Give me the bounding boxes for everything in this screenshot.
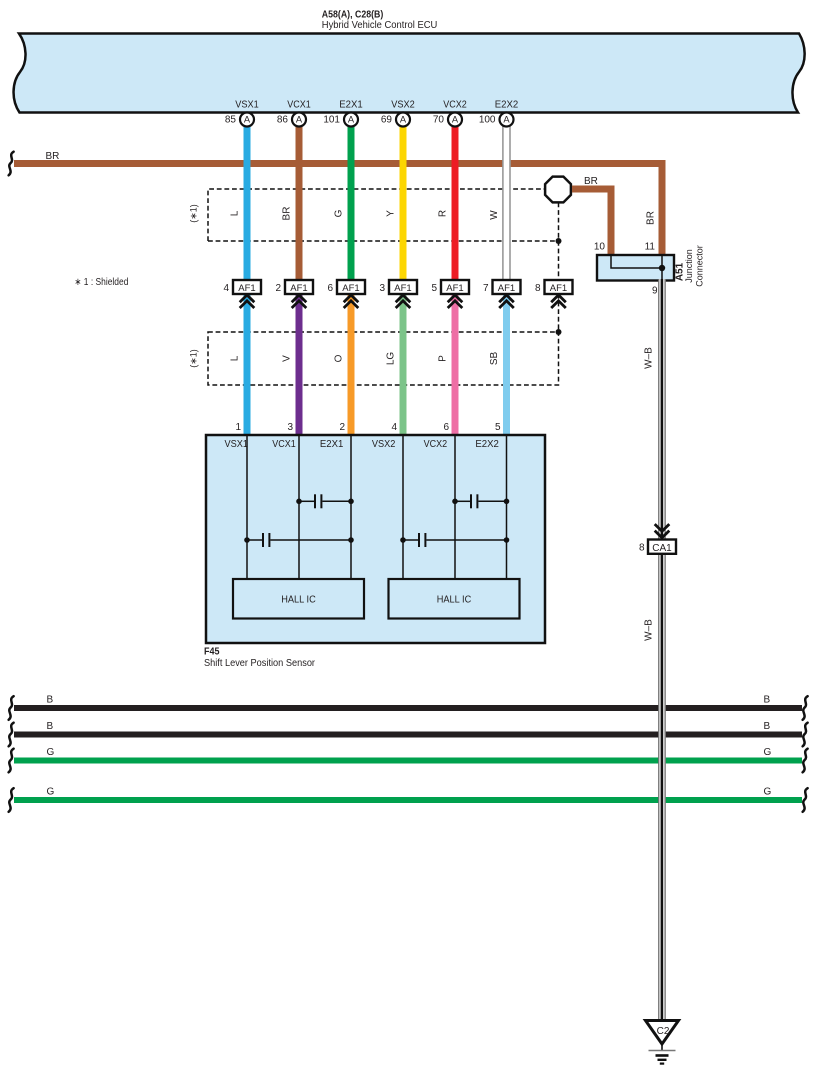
svg-text:Connector: Connector	[695, 245, 705, 287]
wire G bus 2	[14, 797, 802, 803]
break symbol B bus 2 right	[803, 723, 808, 747]
svg-text:A: A	[400, 115, 407, 125]
ECU pin 69 circle A	[381, 113, 410, 127]
wire VSX2 Y (ECU to AF1)	[400, 126, 407, 280]
svg-text:W–B: W–B	[644, 619, 655, 641]
svg-text:86: 86	[277, 115, 289, 126]
svg-text:O: O	[334, 354, 345, 362]
svg-text:AF1: AF1	[498, 283, 515, 294]
sensor internal wire VCX2	[454, 436, 456, 579]
sensor internal wire VSX1	[246, 436, 248, 579]
svg-text:BR: BR	[282, 207, 293, 221]
svg-text:P: P	[438, 355, 449, 362]
break symbol BR wire left	[9, 152, 14, 176]
svg-text:AF1: AF1	[238, 283, 255, 294]
svg-text:2: 2	[339, 422, 345, 433]
svg-text:BR: BR	[46, 151, 60, 162]
svg-text:E2X1: E2X1	[320, 439, 344, 450]
wire VCX1 BR (ECU to AF1)	[296, 126, 303, 280]
svg-text:VCX2: VCX2	[424, 439, 448, 450]
connector AF1 pin 6	[327, 280, 365, 308]
sensor internal wire VCX1	[298, 436, 300, 579]
svg-text:AF1: AF1	[342, 283, 359, 294]
shield box 1 dashed	[208, 189, 559, 241]
wire BR main horizontal to junction connector pin 11	[14, 164, 662, 256]
svg-text:G: G	[764, 787, 772, 798]
HALL IC 2 box	[389, 579, 520, 619]
capacitor C (VCX1-E2X1)	[296, 494, 354, 508]
svg-text:A: A	[503, 115, 510, 125]
sensor F45 box	[206, 435, 545, 643]
svg-text:A: A	[296, 115, 303, 125]
svg-text:SB: SB	[489, 352, 500, 366]
wire V (AF1 to sensor pin 3)	[296, 294, 303, 435]
svg-text:AF1: AF1	[394, 283, 411, 294]
svg-text:101: 101	[323, 115, 340, 126]
svg-text:W–B: W–B	[644, 347, 655, 369]
svg-text:∗ 1 : Shielded: ∗ 1 : Shielded	[74, 277, 128, 288]
svg-text:7: 7	[483, 283, 489, 294]
capacitor C (VSX1-E2X1)	[244, 533, 354, 547]
wire L (AF1 to sensor pin 1)	[244, 294, 251, 435]
wire G bus 1	[14, 758, 802, 764]
break symbol G bus 1 left	[9, 749, 14, 773]
connector AF1 pin 4	[223, 280, 261, 308]
svg-text:8: 8	[639, 543, 645, 554]
svg-text:A: A	[348, 115, 355, 125]
svg-text:E2X1: E2X1	[339, 100, 363, 111]
wire P (AF1 to sensor pin 6)	[452, 294, 459, 435]
ECU pin 100 circle A	[479, 113, 514, 127]
sensor internal wire E2X1	[350, 436, 352, 579]
junction dot shield box1	[556, 238, 562, 244]
ECU pin 70 circle A	[433, 113, 462, 127]
svg-text:Hybrid Vehicle Control ECU: Hybrid Vehicle Control ECU	[322, 20, 438, 31]
shield drain dashed wire (AF1 8 to box2)	[558, 294, 560, 332]
svg-text:4: 4	[391, 422, 397, 433]
svg-text:VCX1: VCX1	[287, 100, 311, 111]
break symbol B bus 1 right	[803, 696, 808, 720]
svg-text:A: A	[452, 115, 459, 125]
svg-text:VSX1: VSX1	[225, 439, 249, 450]
ground C2	[646, 1021, 679, 1064]
svg-text:Y: Y	[386, 210, 397, 217]
junction dot shield box2	[556, 329, 562, 335]
svg-text:CA1: CA1	[652, 543, 672, 554]
svg-text:L: L	[230, 355, 241, 361]
svg-text:1: 1	[235, 422, 241, 433]
junction connector A51 box	[597, 255, 674, 281]
svg-text:B: B	[47, 695, 54, 706]
svg-text:HALL IC: HALL IC	[437, 595, 472, 606]
wire E2X2 W white (ECU to AF1)	[502, 126, 510, 280]
svg-text:G: G	[764, 747, 772, 758]
capacitor C (VSX2-E2X2)	[400, 533, 509, 547]
ECU pin 101 circle A	[323, 113, 358, 127]
svg-text:AF1: AF1	[290, 283, 307, 294]
svg-text:F45: F45	[204, 647, 220, 658]
shield ring octagon	[545, 177, 571, 203]
svg-text:85: 85	[225, 115, 237, 126]
wire E2X1 G (ECU to AF1)	[348, 126, 355, 280]
svg-text:6: 6	[443, 422, 449, 433]
svg-text:G: G	[47, 787, 55, 798]
ECU pin 86 circle A	[277, 113, 306, 127]
wire B ground bus 1	[14, 705, 802, 711]
svg-text:VSX2: VSX2	[391, 100, 415, 111]
HALL IC 1 box	[233, 579, 364, 619]
svg-text:W: W	[489, 210, 500, 220]
svg-text:A: A	[244, 115, 251, 125]
svg-text:2: 2	[275, 283, 281, 294]
break symbol B bus 1 left	[9, 696, 14, 720]
svg-text:3: 3	[287, 422, 293, 433]
svg-text:BR: BR	[646, 211, 657, 225]
svg-text:6: 6	[327, 283, 333, 294]
svg-text:BR: BR	[584, 176, 598, 187]
break symbol B bus 2 left	[9, 723, 14, 747]
connector AF1 pin 3	[379, 280, 417, 308]
svg-text:9: 9	[652, 286, 658, 297]
shield box 2 dashed	[208, 332, 559, 385]
svg-text:AF1: AF1	[550, 283, 567, 294]
svg-text:70: 70	[433, 115, 445, 126]
break symbol G bus 1 right	[803, 749, 808, 773]
wire VSX1 L (ECU to AF1)	[244, 126, 251, 280]
connector AF1 pin 7	[483, 280, 521, 308]
ECU pin 85 circle A	[225, 113, 254, 127]
svg-text:B: B	[764, 695, 771, 706]
break symbol G bus 2 right	[803, 788, 808, 812]
svg-text:E2X2: E2X2	[495, 100, 519, 111]
svg-text:VSX2: VSX2	[372, 439, 396, 450]
svg-text:11: 11	[645, 242, 656, 253]
break symbol G bus 2 left	[9, 788, 14, 812]
svg-text:C2: C2	[657, 1026, 670, 1037]
wire LG (AF1 to sensor pin 4)	[400, 294, 407, 435]
svg-text:VCX1: VCX1	[272, 439, 296, 450]
svg-text:Shift Lever Position Sensor: Shift Lever Position Sensor	[204, 658, 316, 669]
svg-text:5: 5	[431, 283, 437, 294]
svg-text:(∗1): (∗1)	[189, 204, 199, 223]
connector AF1 pin 5	[431, 280, 469, 308]
svg-text:B: B	[764, 721, 771, 732]
svg-text:A58(A), C28(B): A58(A), C28(B)	[322, 10, 384, 21]
wire O (AF1 to sensor pin 2)	[348, 294, 355, 435]
svg-text:L: L	[230, 210, 241, 216]
ECU band A58/C28	[14, 34, 805, 113]
svg-text:100: 100	[479, 115, 496, 126]
connector AF1 pin 8 shield	[535, 280, 573, 308]
wire VCX2 R (ECU to AF1)	[452, 126, 459, 280]
svg-text:G: G	[47, 747, 55, 758]
svg-text:8: 8	[535, 283, 541, 294]
svg-text:69: 69	[381, 115, 393, 126]
connector CA1 pin 8	[639, 524, 676, 554]
svg-text:HALL IC: HALL IC	[281, 595, 316, 606]
wire W-B (junction pin 9 to ground)	[658, 279, 666, 1021]
sensor internal wire E2X2	[506, 436, 508, 579]
wire SB (AF1 to sensor pin 5)	[503, 294, 510, 435]
svg-text:LG: LG	[386, 352, 397, 366]
svg-text:4: 4	[223, 283, 229, 294]
svg-text:10: 10	[594, 242, 606, 253]
svg-text:(∗1): (∗1)	[189, 349, 199, 368]
sensor internal wire VSX2	[402, 436, 404, 579]
svg-text:AF1: AF1	[446, 283, 463, 294]
svg-text:V: V	[282, 355, 293, 362]
connector AF1 pin 2	[275, 280, 313, 308]
svg-text:B: B	[47, 721, 54, 732]
wire BR shield ring to junction connector pin 10	[572, 189, 611, 255]
svg-text:G: G	[334, 209, 345, 217]
svg-text:E2X2: E2X2	[475, 439, 499, 450]
svg-text:R: R	[438, 210, 449, 217]
svg-text:VSX1: VSX1	[235, 100, 259, 111]
wire B ground bus 2	[14, 732, 802, 738]
svg-text:5: 5	[495, 422, 501, 433]
svg-text:VCX2: VCX2	[443, 100, 467, 111]
shield drain dashed wire (box1 to AF1 8)	[558, 241, 560, 280]
svg-text:Junction: Junction	[684, 249, 694, 283]
svg-text:3: 3	[379, 283, 385, 294]
capacitor C (VCX2-E2X2)	[452, 494, 509, 508]
